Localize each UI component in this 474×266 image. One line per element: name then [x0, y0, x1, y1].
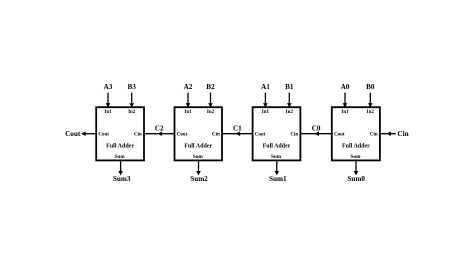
svg-text:B0: B0 [366, 83, 375, 91]
svg-text:A1: A1 [261, 83, 270, 91]
svg-text:Sum3: Sum3 [113, 175, 131, 183]
svg-text:B2: B2 [206, 83, 215, 91]
svg-text:B1: B1 [285, 83, 294, 91]
svg-text:A2: A2 [184, 83, 193, 91]
svg-text:B3: B3 [128, 83, 137, 91]
svg-text:Sum1: Sum1 [269, 175, 287, 183]
wire A3 input arrow [107, 93, 109, 104]
wire Sum3 output arrow [120, 160, 122, 171]
wire A1 input arrow [264, 93, 266, 104]
wire A2 input arrow [187, 93, 189, 104]
svg-text:Sum: Sum [193, 154, 204, 160]
svg-text:Cin: Cin [370, 132, 378, 137]
wire B2 input arrow [210, 93, 212, 104]
svg-text:Sum: Sum [271, 154, 282, 160]
wire Sum1 output arrow [276, 160, 278, 171]
svg-text:Full Adder: Full Adder [106, 143, 134, 149]
svg-text:Cin: Cin [212, 132, 220, 137]
svg-text:Full Adder: Full Adder [263, 143, 291, 149]
svg-text:A0: A0 [341, 83, 350, 91]
svg-text:Cout: Cout [255, 132, 266, 137]
wire carry C2 [144, 133, 175, 135]
svg-text:In2: In2 [367, 110, 375, 115]
full adder U3 box [96, 107, 144, 160]
svg-text:In1: In1 [262, 110, 270, 115]
svg-text:In1: In1 [184, 110, 192, 115]
svg-text:In2: In2 [207, 110, 215, 115]
svg-text:C2: C2 [155, 124, 164, 132]
full adder U1 box [253, 107, 301, 160]
full adder U2 box [175, 107, 223, 160]
wire A0 input arrow [344, 93, 346, 104]
svg-text:Sum2: Sum2 [190, 175, 208, 183]
svg-text:A3: A3 [104, 83, 113, 91]
wire carry C1 [222, 133, 253, 135]
wire Sum2 output arrow [198, 160, 200, 171]
svg-text:Sum: Sum [115, 154, 126, 160]
svg-text:Cout: Cout [177, 132, 188, 137]
svg-text:In2: In2 [286, 110, 294, 115]
svg-text:Full Adder: Full Adder [184, 143, 212, 149]
wire B1 input arrow [288, 93, 290, 104]
wire B3 input arrow [131, 93, 133, 104]
svg-text:Sum0: Sum0 [347, 175, 365, 183]
svg-text:C0: C0 [312, 124, 321, 132]
svg-text:C1: C1 [233, 124, 242, 132]
wire Sum0 output arrow [355, 160, 357, 171]
wire Cin input (far right) [380, 133, 396, 135]
svg-text:Cout: Cout [334, 132, 345, 137]
svg-text:Cin: Cin [290, 132, 298, 137]
svg-text:Cout: Cout [65, 130, 81, 138]
svg-text:In1: In1 [104, 110, 112, 115]
wire B0 input arrow [369, 93, 371, 104]
svg-text:Cout: Cout [98, 132, 109, 137]
svg-text:Sum: Sum [350, 154, 361, 160]
svg-text:Cin: Cin [397, 130, 408, 138]
full adder U0 box [332, 107, 380, 160]
wire carry C0 [300, 133, 331, 135]
svg-text:Cin: Cin [134, 132, 142, 137]
svg-text:In1: In1 [341, 110, 349, 115]
svg-text:In2: In2 [128, 110, 136, 115]
wire Cout output (far left) [85, 133, 96, 135]
svg-text:Full Adder: Full Adder [342, 143, 370, 149]
